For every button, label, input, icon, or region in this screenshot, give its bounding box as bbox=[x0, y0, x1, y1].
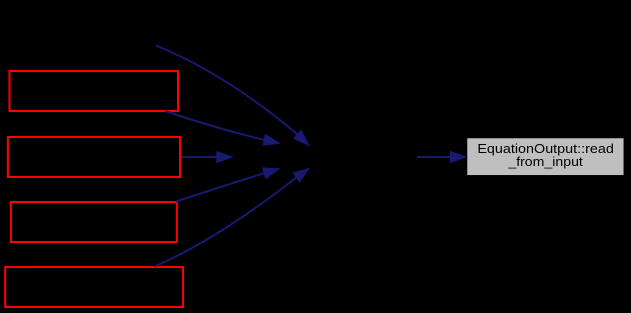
svg-text:_from_input: _from_input bbox=[507, 154, 583, 169]
node: caller box 4 (red, truncated) bbox=[5, 267, 183, 307]
node: caller box 1 (red, truncated) bbox=[10, 71, 179, 111]
node: caller box 3 (red, truncated) bbox=[11, 202, 177, 242]
edge E: box 4 to middle node (curved) bbox=[155, 168, 310, 266]
edge D: box 3 to middle node bbox=[176, 168, 279, 202]
edge A: top hidden node to middle node (curved) bbox=[156, 46, 309, 146]
node: EquationOutput::read_from_input (current node, grey) bbox=[467, 138, 625, 176]
edge B: box 1 to middle node bbox=[165, 111, 279, 145]
node: caller box 2 (red, truncated) bbox=[8, 137, 180, 177]
edge C: box 2 to middle node (horizontal) bbox=[181, 152, 232, 163]
edge F: middle node to EquationOutput::read_from_input bbox=[417, 152, 466, 163]
